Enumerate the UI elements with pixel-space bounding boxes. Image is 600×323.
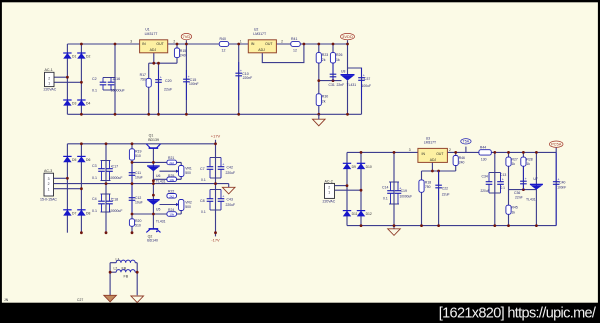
svg-text:C27: C27: [77, 298, 83, 302]
svg-text:R27: R27: [512, 157, 518, 161]
svg-text:C11: C11: [135, 171, 141, 175]
svg-text:C22: C22: [442, 186, 448, 190]
svg-text:10000uF: 10000uF: [400, 194, 413, 198]
svg-text:2k: 2k: [322, 99, 326, 103]
svg-text:R23: R23: [322, 53, 328, 57]
svg-text:10uF: 10uF: [135, 201, 143, 205]
svg-text:1: 1: [328, 191, 330, 195]
svg-text:C8: C8: [200, 199, 205, 203]
svg-text:U6: U6: [156, 174, 160, 178]
svg-text:C18: C18: [112, 198, 119, 202]
svg-text:22uF: 22uF: [442, 192, 450, 196]
svg-text:C12: C12: [135, 196, 141, 200]
svg-text:ADJ: ADJ: [258, 48, 265, 52]
svg-text:D6: D6: [86, 158, 90, 162]
svg-text:1k: 1k: [336, 58, 340, 62]
svg-text:240: 240: [180, 53, 186, 57]
svg-text:C36: C36: [514, 191, 520, 195]
svg-text:D10: D10: [366, 165, 372, 169]
svg-text:2: 2: [449, 148, 451, 152]
svg-text:12: 12: [293, 49, 297, 53]
svg-text:C15: C15: [190, 78, 197, 82]
svg-text:3VDD: 3VDD: [342, 34, 353, 39]
svg-text:2k2: 2k2: [169, 194, 174, 198]
svg-text:D4: D4: [86, 101, 90, 105]
svg-text:+: +: [525, 177, 527, 181]
svg-text:+: +: [222, 162, 224, 166]
svg-text:R26: R26: [336, 53, 342, 57]
svg-text:R18: R18: [425, 180, 431, 184]
svg-text:0.1: 0.1: [92, 89, 97, 93]
svg-text:+: +: [160, 75, 162, 79]
svg-text:C31: C31: [329, 83, 335, 87]
svg-text:2: 2: [173, 40, 175, 44]
svg-text:22nF: 22nF: [515, 195, 523, 199]
svg-text:C42: C42: [227, 165, 233, 169]
svg-text:D3: D3: [72, 101, 76, 105]
svg-text:220VAC: 220VAC: [44, 88, 57, 92]
svg-text:3: 3: [48, 177, 50, 181]
svg-text:TL431: TL431: [347, 83, 357, 87]
svg-text:TL431: TL431: [526, 198, 536, 202]
svg-text:3: 3: [130, 40, 132, 44]
svg-text:10k: 10k: [169, 213, 174, 217]
svg-text:FB: FB: [124, 274, 129, 278]
svg-text:220nF: 220nF: [243, 76, 253, 80]
svg-text:100nF: 100nF: [189, 82, 199, 86]
svg-text:IN: IN: [251, 42, 255, 46]
svg-text:10000uF: 10000uF: [111, 89, 126, 93]
svg-text:D1: D1: [72, 54, 76, 58]
svg-text:C7: C7: [200, 167, 205, 171]
svg-text:-17V: -17V: [211, 237, 220, 242]
svg-text:500: 500: [185, 171, 191, 175]
svg-text:240: 240: [459, 161, 465, 165]
svg-text:IN: IN: [142, 42, 146, 46]
svg-text:10000uF: 10000uF: [109, 176, 122, 180]
svg-text:1k: 1k: [512, 210, 516, 214]
svg-text:C13: C13: [500, 173, 506, 177]
svg-text:2: 2: [281, 40, 283, 44]
svg-text:0.1: 0.1: [383, 196, 388, 200]
svg-text:OUT: OUT: [436, 152, 443, 156]
svg-text:12: 12: [222, 49, 226, 53]
svg-text:750: 750: [140, 78, 146, 82]
svg-text:T5A: T5A: [463, 140, 470, 144]
svg-text:510: 510: [135, 154, 141, 158]
svg-text:L2: L2: [114, 267, 118, 271]
svg-text:1: 1: [240, 40, 242, 44]
svg-text:1: 1: [48, 82, 50, 86]
svg-text:ADJ: ADJ: [430, 158, 437, 162]
svg-text:C14: C14: [382, 186, 388, 190]
svg-text:BD140: BD140: [147, 238, 158, 242]
svg-text:R20: R20: [135, 219, 141, 223]
svg-text:+17V: +17V: [211, 134, 221, 139]
svg-text:D8: D8: [86, 211, 90, 215]
svg-text:C2: C2: [92, 77, 97, 81]
svg-text:R24: R24: [168, 208, 174, 212]
svg-text:C4: C4: [92, 197, 97, 201]
svg-text:0.1: 0.1: [501, 186, 506, 190]
svg-text:U5: U5: [156, 207, 160, 211]
svg-text:ADJ: ADJ: [150, 48, 157, 52]
svg-text:AC-3: AC-3: [44, 169, 52, 173]
svg-text:OUT: OUT: [265, 42, 273, 46]
svg-text:220uF: 220uF: [226, 203, 236, 207]
svg-text:D7: D7: [72, 211, 76, 215]
svg-text:R40: R40: [220, 37, 226, 41]
svg-text:500: 500: [185, 205, 191, 209]
svg-text:R44: R44: [480, 145, 486, 149]
svg-text:1: 1: [48, 187, 50, 191]
svg-text:BD139: BD139: [148, 138, 159, 142]
svg-text:OUT: OUT: [156, 42, 164, 46]
svg-text:AC-1: AC-1: [45, 68, 53, 72]
svg-text:0.1: 0.1: [201, 178, 206, 182]
svg-text:C16: C16: [114, 77, 121, 81]
svg-text:R21: R21: [168, 156, 174, 160]
svg-text:+: +: [502, 177, 504, 181]
svg-text:100uF: 100uF: [362, 84, 372, 88]
svg-text:AC-2: AC-2: [325, 179, 333, 183]
svg-text:VR2: VR2: [185, 201, 192, 205]
svg-text:2k2: 2k2: [169, 161, 174, 165]
svg-text:C43: C43: [227, 197, 233, 201]
svg-text:C3: C3: [92, 164, 97, 168]
svg-text:130: 130: [481, 157, 487, 161]
svg-text:LM317T: LM317T: [145, 32, 159, 36]
svg-text:220uF: 220uF: [226, 171, 236, 175]
svg-text:0.1: 0.1: [201, 210, 206, 214]
svg-text:1k: 1k: [512, 162, 516, 166]
svg-text:10000uF: 10000uF: [109, 209, 122, 213]
svg-text:7VD: 7VD: [183, 34, 191, 39]
svg-text:D5: D5: [72, 158, 76, 162]
svg-text:10uF: 10uF: [135, 176, 143, 180]
svg-text:D11: D11: [352, 212, 358, 216]
svg-text:+: +: [222, 194, 224, 198]
svg-text:D9: D9: [352, 165, 356, 169]
svg-text:L1: L1: [116, 257, 120, 261]
svg-text:VR1: VR1: [185, 167, 192, 171]
svg-text:TL431: TL431: [156, 180, 166, 184]
svg-text:FB: FB: [122, 267, 127, 271]
svg-text:0.1: 0.1: [92, 209, 97, 213]
svg-text:R15: R15: [180, 49, 186, 53]
svg-text:LM317T: LM317T: [424, 140, 436, 144]
svg-text:C34: C34: [482, 174, 488, 178]
svg-text:22uF: 22uF: [164, 88, 173, 92]
svg-text:C40: C40: [559, 180, 565, 184]
svg-text:LM317T: LM317T: [253, 32, 267, 36]
svg-text:D2: D2: [86, 54, 90, 58]
svg-text:2k: 2k: [322, 58, 326, 62]
svg-text:TL431: TL431: [156, 219, 166, 223]
svg-text:220uF: 220uF: [481, 189, 490, 193]
svg-text:IN: IN: [422, 152, 426, 156]
svg-text:C20: C20: [165, 79, 172, 83]
svg-text:0.1: 0.1: [92, 176, 97, 180]
svg-text:750: 750: [425, 185, 431, 189]
svg-text:C17: C17: [112, 165, 119, 169]
svg-text:U8: U8: [341, 69, 345, 73]
svg-text:R28: R28: [526, 157, 532, 161]
svg-text:D12: D12: [366, 212, 372, 216]
svg-text:15-0-15AC: 15-0-15AC: [40, 198, 57, 202]
svg-text:C37: C37: [364, 77, 370, 81]
svg-text:C19: C19: [401, 189, 407, 193]
svg-text:R22: R22: [168, 189, 174, 193]
svg-text:PC5A: PC5A: [551, 142, 562, 147]
svg-text:R30: R30: [322, 94, 328, 98]
svg-text:JN: JN: [4, 298, 9, 302]
svg-text:510: 510: [135, 224, 141, 228]
svg-text:2: 2: [48, 182, 50, 186]
svg-text:R45: R45: [512, 206, 518, 210]
svg-text:3: 3: [409, 148, 411, 152]
svg-text:R19: R19: [135, 149, 141, 153]
svg-text:2: 2: [328, 186, 330, 190]
svg-text:R41: R41: [291, 37, 297, 41]
svg-text:R17: R17: [140, 73, 146, 77]
svg-text:U7: U7: [533, 177, 537, 181]
svg-text:100nF: 100nF: [557, 186, 566, 190]
svg-text:10k: 10k: [169, 178, 174, 182]
svg-text:2: 2: [48, 76, 50, 80]
svg-text:220VAC: 220VAC: [323, 200, 336, 204]
svg-text:1k: 1k: [526, 162, 530, 166]
svg-text:[1621x820] https://upic.me/: [1621x820] https://upic.me/: [439, 305, 597, 321]
svg-text:22nF: 22nF: [337, 83, 345, 87]
svg-text:R46: R46: [459, 156, 465, 160]
